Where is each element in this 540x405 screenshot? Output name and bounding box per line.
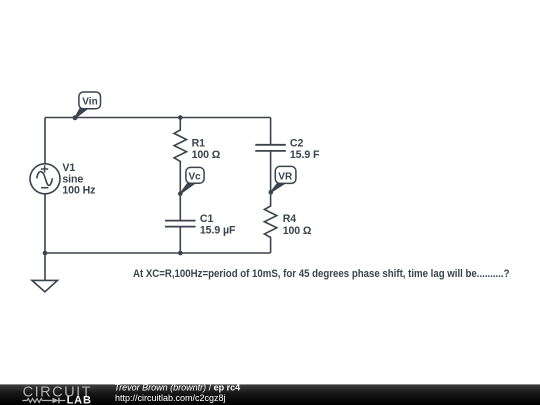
V1 value labels (62, 162, 95, 196)
wire left vertical upper (top wire to V1) (44, 118, 46, 165)
wire right branch lower (R4 to bottom wire) (270, 241, 272, 254)
junction top wire / middle branch (178, 115, 183, 120)
node Vc flag (178, 167, 204, 196)
logo resistor-diode glyph (22, 398, 65, 404)
wire ground stem (44, 253, 46, 280)
R4 labels (283, 213, 312, 237)
wire right branch mid (C2 to R4) (270, 152, 272, 205)
svg-text:LAB: LAB (67, 394, 91, 405)
svg-text:R1: R1 (192, 137, 206, 149)
svg-text:Vin: Vin (82, 97, 97, 108)
wire right branch upper (top wire to C2) (270, 118, 272, 145)
svg-text:sine: sine (62, 173, 83, 185)
wire middle branch mid (R1 to C1) (179, 164, 181, 221)
R1 labels (192, 137, 221, 161)
node Vin flag (73, 92, 101, 120)
C1 labels (200, 213, 236, 237)
svg-text:C2: C2 (290, 137, 304, 149)
capacitor C2 (255, 145, 285, 151)
footer bar (0, 384, 540, 405)
C2 labels (290, 137, 320, 161)
wire top horizontal (45, 117, 271, 119)
node VR flag (269, 166, 296, 194)
svg-text:VR: VR (278, 171, 293, 182)
svg-text:Vc: Vc (189, 172, 202, 183)
wire middle branch upper (top wire to R1) (179, 118, 181, 130)
wire bottom horizontal (45, 252, 271, 254)
wire left vertical lower (V1 to bottom wire) (44, 194, 46, 253)
svg-text:R4: R4 (283, 213, 297, 225)
capacitor C1 (165, 221, 196, 227)
resistor R1 (174, 129, 186, 164)
svg-text:Trevor Brown (browntr) / ep rc: Trevor Brown (browntr) / ep rc4 (114, 382, 240, 392)
svg-text:http://circuitlab.com/c2cgz8j: http://circuitlab.com/c2cgz8j (115, 393, 226, 403)
svg-text:100 Hz: 100 Hz (62, 185, 95, 197)
voltage source V1 (30, 164, 60, 194)
junction bottom wire / left (43, 251, 48, 256)
svg-text:V1: V1 (62, 162, 75, 174)
svg-text:C1: C1 (200, 213, 214, 225)
wire middle branch lower (C1 to bottom wire) (179, 227, 181, 253)
junction top wire / Vin (73, 115, 78, 120)
svg-text:100 Ω: 100 Ω (192, 149, 221, 161)
svg-text:15.9 F: 15.9 F (290, 149, 320, 161)
svg-text:At XC=R,100Hz=period of 10mS,: At XC=R,100Hz=period of 10mS, for 45 deg… (133, 268, 510, 280)
ground (32, 280, 58, 291)
resistor R4 (264, 205, 276, 241)
svg-text:15.9 µF: 15.9 µF (200, 225, 236, 237)
svg-text:100 Ω: 100 Ω (283, 225, 312, 237)
junction bottom wire / middle branch (178, 251, 183, 256)
